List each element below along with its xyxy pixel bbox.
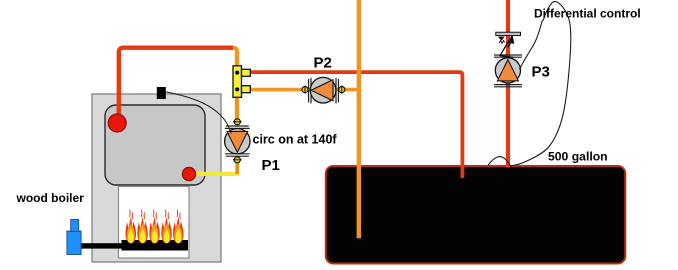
blower body <box>67 231 81 255</box>
flue sensor on boiler top <box>157 87 166 99</box>
impeller triangle down <box>227 131 248 152</box>
supply pipe red from boiler to tee corner <box>119 48 233 122</box>
storage tank 500 gallon <box>326 166 626 264</box>
flame 2 <box>137 210 147 244</box>
firebox <box>119 187 190 259</box>
blower neck <box>71 220 79 232</box>
boiler return node (red circle) <box>182 167 195 180</box>
bottom flange <box>225 153 250 155</box>
red P3 riser <box>506 0 510 168</box>
yellow return pipe from boiler <box>193 172 239 176</box>
flame 1 <box>126 210 136 244</box>
svg-text:500 gallon: 500 gallon <box>548 149 608 163</box>
left flange <box>308 79 310 102</box>
pump circle <box>225 129 250 154</box>
svg-text:P3: P3 <box>532 64 550 81</box>
isolation valve handle above P3 <box>496 32 521 35</box>
right union bolt <box>339 87 345 93</box>
node dot bottom <box>235 87 239 91</box>
red header pipe to tank <box>250 72 462 178</box>
pump P1 assembly <box>225 119 250 163</box>
pump P3 assembly <box>494 55 522 87</box>
impeller triangle left <box>311 80 333 101</box>
svg-text:Differential control: Differential control <box>534 6 641 20</box>
pump P2 assembly <box>302 77 345 103</box>
orange pipe tee to P2 to riser <box>250 88 360 92</box>
grate <box>122 240 189 251</box>
wood boiler outer body <box>92 94 221 262</box>
right flange <box>335 78 337 103</box>
top flange <box>226 125 249 127</box>
top union bolt <box>234 119 240 125</box>
bottom union bolt <box>234 157 240 163</box>
boiler water jacket <box>105 105 205 185</box>
aquastat wire boiler sensor to P1 <box>164 92 231 134</box>
svg-text:circ on at 140f: circ on at 140f <box>253 133 338 147</box>
impeller triangle up <box>497 60 518 81</box>
orange corner into tee <box>233 48 237 67</box>
flame 5 <box>173 210 183 244</box>
differential control wire <box>510 1 570 166</box>
orange storage riser <box>357 0 361 238</box>
flame 3 <box>149 210 159 244</box>
wire hump to tank sensor <box>488 157 510 166</box>
top flange <box>494 54 522 56</box>
tee manifold <box>233 66 250 98</box>
boiler supply node (red circle) <box>108 114 126 132</box>
svg-text:wood boiler: wood boiler <box>16 191 85 205</box>
pump circle <box>495 58 520 83</box>
valve wing left <box>498 37 505 41</box>
left union bolt <box>302 87 308 93</box>
flame 4 <box>161 210 171 244</box>
orange pipe tee down to P1 <box>235 97 239 120</box>
orange pipe below P1 <box>235 160 239 174</box>
pump circle <box>310 77 336 103</box>
svg-text:P1: P1 <box>262 157 280 174</box>
bottom flange <box>494 84 522 86</box>
valve stem scribble <box>499 41 505 44</box>
svg-text:P2: P2 <box>314 54 332 71</box>
node dot top <box>235 71 239 75</box>
cursor arrow <box>507 35 515 44</box>
blower feed bar <box>79 243 125 248</box>
